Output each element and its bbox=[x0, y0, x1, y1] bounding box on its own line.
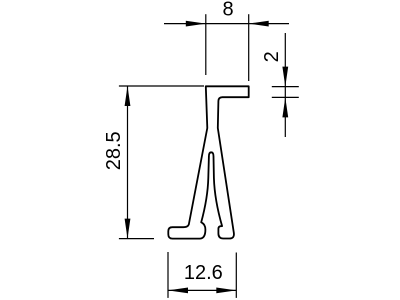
svg-text:2: 2 bbox=[261, 51, 283, 62]
svg-text:28.5: 28.5 bbox=[103, 131, 125, 170]
svg-text:8: 8 bbox=[222, 0, 233, 20]
svg-text:12.6: 12.6 bbox=[184, 262, 223, 284]
